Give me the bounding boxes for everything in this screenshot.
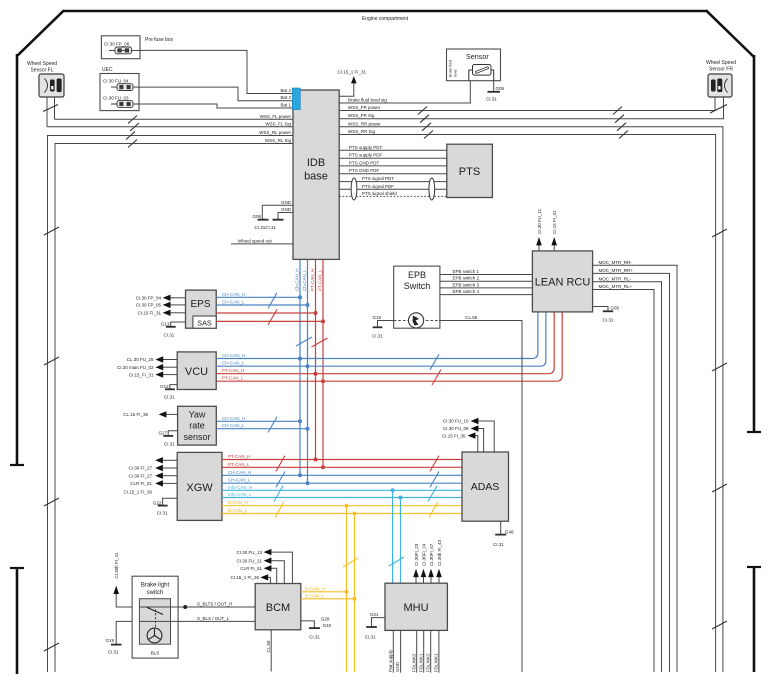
BCM box bbox=[255, 584, 301, 630]
node CI.30b FI_41 bbox=[113, 552, 132, 607]
svg-text:CI.30 FU_04: CI.30 FU_04 bbox=[103, 79, 129, 84]
svg-text:CI.31: CI.31 bbox=[603, 318, 614, 323]
svg-text:CH-CAN_L: CH-CAN_L bbox=[228, 478, 251, 483]
svg-text:CI.30 main FU_02: CI.30 main FU_02 bbox=[117, 365, 154, 370]
ground G05 (sensor) bbox=[486, 81, 505, 102]
svg-text:CI.31: CI.31 bbox=[108, 650, 119, 655]
svg-text:CI.30FI_57: CI.30FI_57 bbox=[429, 543, 434, 566]
svg-text:level: level bbox=[454, 69, 458, 77]
EPB actuator circle bbox=[409, 313, 424, 328]
pin CI.30 FU_11 (top arrow) bbox=[536, 208, 542, 251]
svg-text:Bat 2: Bat 2 bbox=[280, 95, 291, 100]
pin CI.30FI_57 (top arrow) bbox=[428, 543, 434, 583]
frame: left border upper segment bbox=[16, 54, 19, 465]
splice marks on FR/RR horizontals set 2 bbox=[613, 107, 628, 139]
svg-text:CI.15_1 FI_31: CI.15_1 FI_31 bbox=[338, 70, 367, 75]
junction dots on bus: PT ends bbox=[314, 458, 318, 462]
VCU box bbox=[177, 352, 216, 390]
svg-text:CI.30 FI_27: CI.30 FI_27 bbox=[128, 473, 152, 478]
svg-text:G05: G05 bbox=[496, 86, 505, 91]
junction dots EPS bbox=[298, 295, 302, 299]
svg-text:EPB: EPB bbox=[408, 270, 426, 280]
ground G22 bbox=[153, 498, 177, 515]
splice marks on left RL verticals bbox=[44, 227, 59, 651]
wire EPS CH-CAN_L bbox=[216, 300, 307, 306]
svg-text:CI.30b FI_43: CI.30b FI_43 bbox=[437, 539, 442, 566]
svg-text:PTS: PTS bbox=[459, 166, 480, 178]
svg-text:Sensor FL: Sensor FL bbox=[30, 68, 53, 74]
wire WSS_FR Sig bbox=[339, 97, 723, 119]
svg-text:CI.30 FP_04: CI.30 FP_04 bbox=[136, 296, 162, 301]
splice marks on right RR verticals bbox=[712, 229, 727, 629]
svg-text:G48: G48 bbox=[505, 529, 514, 534]
ground G19 (BLS) bbox=[105, 621, 132, 654]
svg-text:UEC: UEC bbox=[102, 67, 113, 73]
svg-text:S_BLS / OUT_L: S_BLS / OUT_L bbox=[197, 616, 230, 621]
EPS box bbox=[186, 290, 217, 328]
PTS signal wires rows 5-7 bbox=[339, 176, 447, 182]
svg-text:Brake fluid level sig: Brake fluid level sig bbox=[348, 98, 387, 103]
frame: right chamfer bbox=[706, 10, 754, 57]
svg-text:MOC_MTR_RR+: MOC_MTR_RR+ bbox=[599, 268, 634, 273]
svg-text:CL.56: CL.56 bbox=[465, 315, 478, 320]
wire EPS CH-CAN_H bbox=[216, 292, 300, 298]
wire Info-CAN verticals to MHU bbox=[393, 490, 401, 583]
svg-text:Pre fuse box: Pre fuse box bbox=[145, 37, 174, 43]
wire MHU GND bbox=[395, 630, 400, 672]
wire bus B-CAN_H bbox=[222, 500, 462, 506]
wire BCM B-CAN_H bbox=[301, 586, 347, 592]
svg-text:FDLINK1: FDLINK1 bbox=[434, 653, 439, 672]
pin CI.30 FU_09 bbox=[443, 425, 484, 452]
wire EPB switch 3 bbox=[440, 282, 533, 288]
wire EPB switch 1 bbox=[440, 269, 533, 275]
pin CI.30 FU_10 bbox=[443, 418, 494, 452]
splice marks bus set2 bbox=[430, 456, 439, 472]
svg-text:BCM: BCM bbox=[266, 602, 290, 614]
svg-text:Bat 2: Bat 2 bbox=[280, 88, 291, 93]
splice marks on FR/RR horizontals set 1 bbox=[418, 107, 433, 139]
svg-text:CI.15_1 FI_36: CI.15_1 FI_36 bbox=[230, 575, 259, 580]
wire yaw CH-CAN_L bbox=[216, 423, 307, 429]
junction dots B-CAN at BCM bbox=[345, 590, 349, 594]
wire bus Info-CAN_L bbox=[222, 492, 462, 498]
svg-text:Wheel Speed: Wheel Speed bbox=[706, 60, 736, 66]
splice marks bus set1 bbox=[276, 456, 285, 472]
wire bus PT-CAN_H XGW to ADAS bbox=[222, 454, 462, 460]
wire VCU PT-CAN_L to LEAN RCU bbox=[216, 312, 562, 381]
ground G12 bbox=[160, 384, 177, 400]
wire CL.56 bbox=[439, 315, 522, 672]
splice mark on FL drops bbox=[43, 105, 58, 112]
pin XGW row1 bbox=[155, 457, 177, 463]
pin CI.15 FI_31 (top arrow) bbox=[551, 210, 557, 251]
wire MOC_MTR_RL- bbox=[593, 276, 662, 672]
svg-text:CI.15 FI_31: CI.15 FI_31 bbox=[552, 210, 557, 234]
ground G27 bbox=[158, 430, 177, 446]
svg-text:CI.30 FP_05: CI.30 FP_05 bbox=[136, 303, 162, 308]
PTS wires rows 1-4 bbox=[339, 145, 447, 151]
svg-text:Ch-CAN_H: Ch-CAN_H bbox=[294, 268, 299, 291]
wire WSS_RR Sig bbox=[339, 129, 715, 672]
svg-text:CH-CAN_H: CH-CAN_H bbox=[222, 292, 245, 297]
svg-text:EPB switch 1: EPB switch 1 bbox=[453, 269, 480, 274]
svg-text:EPS: EPS bbox=[190, 299, 210, 310]
splice marks on VCU pairs near LEAN RCU bbox=[430, 354, 439, 370]
IDB base box bbox=[293, 90, 339, 259]
wire EPS PT-CAN_L bbox=[216, 320, 323, 322]
svg-text:G13: G13 bbox=[161, 322, 170, 327]
svg-text:WSS_RR Sig: WSS_RR Sig bbox=[348, 129, 376, 134]
svg-text:WSS_RL power: WSS_RL power bbox=[259, 130, 291, 135]
junction dots on bus: CH ends bbox=[298, 473, 302, 477]
svg-text:Ch-CAN_L: Ch-CAN_L bbox=[302, 269, 307, 291]
wire MOC_MTR_RR+ bbox=[593, 268, 670, 672]
svg-text:CH-CAN_L: CH-CAN_L bbox=[222, 423, 245, 428]
svg-text:Wheel Speed: Wheel Speed bbox=[27, 61, 57, 67]
ground G05 (LEAN RCU) bbox=[593, 306, 620, 323]
svg-text:PT-CAN_H: PT-CAN_H bbox=[228, 454, 250, 459]
svg-text:FDLINK2: FDLINK2 bbox=[411, 653, 416, 672]
bus PT-CAN_L vertical bbox=[322, 260, 324, 468]
svg-text:FDLINK2: FDLINK2 bbox=[425, 653, 430, 672]
wire bus B-CAN_L bbox=[222, 508, 462, 514]
pin CL.15 FI_35 bbox=[123, 411, 177, 417]
svg-text:G29: G29 bbox=[321, 617, 330, 622]
junction dots yaw bbox=[298, 419, 302, 423]
splice mark on yaw pair bbox=[268, 417, 277, 433]
svg-text:CI.30FI_24: CI.30FI_24 bbox=[422, 543, 427, 566]
EPB switch box bbox=[394, 266, 440, 328]
ground G13 bbox=[161, 322, 186, 338]
svg-text:CI.30 FI_27: CI.30 FI_27 bbox=[128, 466, 152, 471]
svg-text:CI.15 FI_35: CI.15 FI_35 bbox=[442, 433, 466, 438]
pin CI.30 FP_04 bbox=[136, 295, 186, 301]
svg-text:G21: G21 bbox=[370, 612, 379, 617]
svg-text:CI.31: CI.31 bbox=[309, 635, 320, 640]
wire MHU FDLINK1 a bbox=[418, 630, 423, 672]
bus Ch-CAN_L vertical bbox=[307, 260, 309, 484]
pin CI.15 FI_35 bbox=[442, 432, 478, 452]
svg-text:MOC_MTR_RL+: MOC_MTR_RL+ bbox=[599, 284, 633, 289]
svg-text:PTS signal PDF: PTS signal PDF bbox=[362, 184, 394, 189]
svg-text:Wheel speed out: Wheel speed out bbox=[238, 238, 273, 243]
frame: left border lower segment cap bbox=[10, 567, 24, 569]
svg-text:Brake light: Brake light bbox=[141, 583, 170, 589]
wire: UEC FU_03 Bat 1 to IDB bbox=[139, 104, 293, 108]
brake light switch assembly bbox=[132, 576, 178, 658]
svg-text:Switch: Switch bbox=[404, 281, 431, 291]
svg-text:B-CAN_H: B-CAN_H bbox=[305, 586, 325, 591]
ground G29 G40 bbox=[301, 617, 332, 640]
svg-text:CI.31: CI.31 bbox=[164, 333, 175, 338]
svg-text:GND: GND bbox=[395, 661, 400, 672]
pin CLR FI_51 bbox=[130, 480, 177, 486]
wire WSS_FL Sig bbox=[47, 126, 293, 128]
svg-text:G12: G12 bbox=[160, 384, 169, 389]
pin CI.15_1 FI_36 bbox=[230, 574, 270, 583]
pin CI.30FI_23 (top arrow) bbox=[413, 543, 419, 583]
svg-text:WSS_RR power: WSS_RR power bbox=[348, 121, 381, 126]
pin CI.30 FU_13 bbox=[236, 549, 292, 584]
svg-text:WSS_FR Sig: WSS_FR Sig bbox=[348, 113, 375, 118]
splice marks on EPS CAN pairs bbox=[268, 293, 277, 309]
frame: right border lower segment bbox=[753, 567, 756, 672]
splice marks on left WSS horizontals bbox=[126, 116, 139, 148]
svg-text:MHU: MHU bbox=[403, 602, 428, 614]
svg-text:sensor: sensor bbox=[183, 432, 210, 442]
wire MHU FDLINK1 b bbox=[434, 630, 439, 672]
svg-text:Pwr supply: Pwr supply bbox=[388, 649, 393, 672]
svg-text:PT-CAN_H: PT-CAN_H bbox=[310, 269, 315, 291]
svg-text:CI.31CI.31: CI.31CI.31 bbox=[255, 225, 277, 230]
wire EPS PT-CAN_H bbox=[216, 312, 315, 314]
svg-text:WSS_RL Sig: WSS_RL Sig bbox=[265, 138, 292, 143]
wheel speed sensor FL bbox=[27, 61, 64, 97]
pin CI.30 FI_27 bbox=[128, 465, 177, 471]
svg-text:CI.15_FI_31: CI.15_FI_31 bbox=[129, 372, 154, 377]
svg-text:CI.30 FU_11: CI.30 FU_11 bbox=[537, 208, 542, 234]
svg-text:S_BLTS / OUT_H: S_BLTS / OUT_H bbox=[197, 602, 232, 607]
svg-text:B-CAN_L: B-CAN_L bbox=[228, 508, 248, 513]
svg-text:ADAS: ADAS bbox=[471, 481, 500, 493]
wire bus CH-CAN_L bbox=[222, 478, 462, 484]
bus Ch-CAN_H vertical bbox=[299, 260, 301, 476]
connector (blue) on IDB bbox=[292, 88, 300, 110]
pin CL.30 FU_25 bbox=[127, 356, 177, 362]
svg-text:PTS supply PDF: PTS supply PDF bbox=[349, 153, 383, 158]
wire BCM B-CAN_L bbox=[301, 593, 355, 599]
svg-text:CI.30 FU_03: CI.30 FU_03 bbox=[103, 96, 129, 101]
svg-text:CI.31: CI.31 bbox=[486, 97, 497, 102]
ground G06 bbox=[252, 214, 283, 230]
wire brake fluid level sig bbox=[339, 81, 470, 103]
pin CI.30 FI_27 b bbox=[128, 473, 177, 479]
svg-text:CH-CAN_H: CH-CAN_H bbox=[222, 416, 245, 421]
svg-text:CI.31: CI.31 bbox=[164, 395, 175, 400]
wire MHU FDLINK2 b bbox=[425, 630, 430, 672]
svg-text:CI.30 FU_13: CI.30 FU_13 bbox=[236, 550, 262, 555]
svg-text:FDLINK1: FDLINK1 bbox=[418, 653, 423, 672]
svg-text:G40: G40 bbox=[323, 623, 332, 628]
wire wheel speed out (stub) bbox=[231, 238, 293, 244]
svg-text:CI.30 FU_21: CI.30 FU_21 bbox=[236, 558, 262, 563]
pin CI.30b FI_43 (top arrow) bbox=[436, 539, 442, 583]
wire EPB switch 4 bbox=[440, 289, 533, 295]
svg-text:CH-CAN_L: CH-CAN_L bbox=[222, 300, 245, 305]
svg-text:B-CAN_H: B-CAN_H bbox=[228, 500, 248, 505]
junction dots VCU bbox=[298, 357, 302, 361]
wire VCU CH-CAN_L to LEAN RCU bbox=[216, 312, 546, 366]
pin CI.15_FI_31 bbox=[129, 371, 177, 377]
frame: left chamfer bbox=[17, 10, 64, 56]
svg-text:SAS: SAS bbox=[197, 319, 212, 328]
svg-text:G22: G22 bbox=[153, 500, 162, 505]
svg-text:CLR FI_51: CLR FI_51 bbox=[240, 566, 262, 571]
pin CI.30FI_24 (top arrow) bbox=[421, 543, 427, 583]
junction dots on bus: B taps bbox=[345, 504, 349, 508]
svg-text:CLR FI_51: CLR FI_51 bbox=[130, 481, 152, 486]
svg-text:CI.31: CI.31 bbox=[365, 635, 376, 640]
svg-text:G19: G19 bbox=[105, 638, 114, 643]
svg-text:WSS_FR power: WSS_FR power bbox=[348, 105, 381, 110]
splice mark on B verticals bbox=[343, 558, 358, 567]
pin CI.30 main FU_02 bbox=[117, 364, 177, 370]
wire WSS_RR power bbox=[339, 121, 723, 672]
svg-text:base: base bbox=[304, 171, 328, 183]
svg-text:XGW: XGW bbox=[186, 482, 213, 494]
svg-text:Sensor: Sensor bbox=[466, 52, 489, 61]
svg-text:PTS signal PDT: PTS signal PDT bbox=[362, 176, 394, 181]
svg-text:Brake fluid: Brake fluid bbox=[449, 60, 453, 77]
wire yaw CH-CAN_H bbox=[216, 416, 300, 422]
svg-text:CL.58: CL.58 bbox=[266, 640, 271, 653]
wire: UEC FU_04 Bat 2 to IDB bbox=[139, 87, 293, 101]
node CI.15_1 FI_31 (IDB supply out) bbox=[338, 70, 367, 97]
wire WSS_FL power bbox=[55, 118, 293, 120]
frame: right border upper segment bbox=[753, 55, 756, 432]
svg-text:switch: switch bbox=[147, 590, 164, 596]
svg-text:CI.31: CI.31 bbox=[164, 441, 175, 446]
svg-text:IDB: IDB bbox=[307, 157, 325, 169]
svg-text:PTS signal shield: PTS signal shield bbox=[362, 191, 397, 196]
svg-text:PTS GND PDF: PTS GND PDF bbox=[349, 168, 380, 173]
wire MHU pwr supply bbox=[388, 630, 393, 672]
wire MOC_MTR_RR- bbox=[593, 260, 677, 672]
wire B-CAN verticals down bbox=[347, 506, 355, 672]
svg-text:Info-CAN_L: Info-CAN_L bbox=[228, 492, 252, 497]
wire VCU PT-CAN_H to LEAN RCU bbox=[216, 312, 554, 374]
svg-text:CI.31: CI.31 bbox=[157, 511, 168, 516]
wheel speed sensor FR bbox=[706, 60, 736, 97]
svg-text:WSS_FL Sig: WSS_FL Sig bbox=[265, 121, 291, 126]
MHU box bbox=[385, 583, 447, 630]
wire: pre fuse box Bat 2 to IDB bbox=[140, 50, 293, 93]
frame: right border lower segment cap bbox=[747, 566, 761, 568]
svg-text:CI.15 FI_31: CI.15 FI_31 bbox=[137, 311, 161, 316]
wire WSS_RL power bbox=[48, 136, 293, 673]
svg-text:Info-CAN_H: Info-CAN_H bbox=[228, 485, 252, 490]
svg-text:CH-CAN_L: CH-CAN_L bbox=[222, 361, 245, 366]
svg-text:rate: rate bbox=[189, 421, 205, 431]
splice mark on Ch-CAN verticals bbox=[296, 337, 312, 346]
wire: sensor FL drops bbox=[47, 97, 55, 127]
ground G21 bbox=[365, 612, 385, 639]
svg-text:CI.15_1 FI_36: CI.15_1 FI_36 bbox=[123, 489, 152, 494]
junction dots on bus: Info taps bbox=[391, 488, 395, 492]
shield ellipse 2 bbox=[429, 178, 435, 200]
pin CI.15 FI_31 bbox=[137, 310, 185, 316]
svg-text:Yaw: Yaw bbox=[189, 410, 206, 420]
wire MHU FDLINK2 a bbox=[411, 630, 416, 672]
wire VCU CH-CAN_H to LEAN RCU bbox=[216, 312, 538, 359]
svg-text:PT-CAN_H: PT-CAN_H bbox=[222, 368, 244, 373]
svg-text:CL.30 FU_25: CL.30 FU_25 bbox=[127, 357, 154, 362]
bus PT-CAN_H vertical bbox=[315, 260, 317, 460]
pre fuse box bbox=[101, 36, 173, 59]
svg-text:G27: G27 bbox=[158, 430, 167, 435]
pin CLR FI_51 bbox=[240, 565, 276, 583]
splice mark on PT-CAN verticals bbox=[312, 338, 328, 347]
svg-text:CI.30 FU_10: CI.30 FU_10 bbox=[443, 419, 469, 424]
wire WSS_RL Sig bbox=[55, 144, 293, 673]
svg-text:CI.30b FI_41: CI.30b FI_41 bbox=[114, 552, 119, 579]
wire EPB switch 2 bbox=[440, 276, 533, 282]
svg-text:VCU: VCU bbox=[185, 366, 208, 378]
svg-text:MOC_MTR_RL-: MOC_MTR_RL- bbox=[599, 276, 632, 281]
svg-text:B-CAN_L: B-CAN_L bbox=[305, 593, 325, 598]
splice mark on FR sensor drops bbox=[710, 105, 727, 114]
svg-text:CL.15 FI_35: CL.15 FI_35 bbox=[123, 412, 148, 417]
wire CL.58 bbox=[266, 630, 271, 672]
svg-text:G05: G05 bbox=[611, 306, 620, 311]
wire GND 1 bbox=[262, 200, 293, 219]
svg-text:WSS_FL power: WSS_FL power bbox=[260, 114, 292, 119]
LEAN RCU box bbox=[532, 251, 592, 312]
svg-text:LEAN RCU: LEAN RCU bbox=[535, 277, 591, 289]
yaw rate sensor box bbox=[178, 406, 217, 445]
svg-text:PT-CAN_L: PT-CAN_L bbox=[222, 376, 244, 381]
svg-text:PTS GND PDT: PTS GND PDT bbox=[349, 160, 380, 165]
wire MOC_MTR_RL+ bbox=[593, 284, 654, 672]
ground G48 bbox=[493, 521, 514, 547]
wire bus CH-CAN_H bbox=[222, 470, 462, 476]
svg-text:EPB switch 2: EPB switch 2 bbox=[453, 276, 480, 281]
wire WSS_FR power bbox=[339, 97, 715, 111]
frame: left border lower segment bbox=[16, 568, 19, 674]
svg-text:Engine compartment: Engine compartment bbox=[362, 16, 409, 22]
EPB internal dashed line bbox=[394, 320, 439, 322]
svg-text:CH-CAN_H: CH-CAN_H bbox=[228, 470, 251, 475]
frame: page border top with chamfered corners bbox=[63, 10, 707, 13]
svg-text:PTS supply PDT: PTS supply PDT bbox=[349, 145, 383, 150]
svg-text:EPB switch 4: EPB switch 4 bbox=[453, 289, 480, 294]
svg-text:CH-CAN_H: CH-CAN_H bbox=[222, 353, 245, 358]
XGW box bbox=[177, 452, 222, 520]
frame: left border upper end cap bbox=[10, 464, 24, 466]
wire GND 2 bbox=[278, 207, 293, 219]
wire S_BLTS / OUT_H bbox=[139, 602, 255, 610]
svg-text:GND: GND bbox=[281, 200, 292, 205]
svg-text:Bat 1: Bat 1 bbox=[280, 103, 291, 108]
svg-text:CI.30 FP_06: CI.30 FP_06 bbox=[104, 42, 130, 47]
PTS box bbox=[447, 144, 493, 197]
svg-text:BLS: BLS bbox=[151, 651, 160, 656]
sensor (brake fluid level) box bbox=[447, 49, 501, 81]
svg-text:G06: G06 bbox=[252, 214, 261, 219]
svg-text:MOC_MTR_RR-: MOC_MTR_RR- bbox=[599, 260, 633, 265]
svg-text:GND: GND bbox=[281, 207, 292, 212]
svg-text:CI.30 FU_09: CI.30 FU_09 bbox=[443, 426, 469, 431]
svg-text:EPB switch 3: EPB switch 3 bbox=[453, 282, 480, 287]
svg-text:PT-CAN_L: PT-CAN_L bbox=[228, 462, 250, 467]
ADAS box bbox=[462, 452, 509, 521]
UEC box bbox=[100, 67, 139, 111]
svg-text:Sensor FR: Sensor FR bbox=[709, 67, 733, 73]
svg-text:CI.30FI_23: CI.30FI_23 bbox=[414, 543, 419, 566]
pin CI.30 FP_05 bbox=[136, 302, 186, 308]
pin CI.30 FU_21 bbox=[236, 558, 284, 584]
shield ellipse 1 bbox=[351, 178, 357, 200]
wire bus Info-CAN_H bbox=[222, 485, 462, 491]
svg-text:G19: G19 bbox=[372, 315, 381, 320]
svg-text:CI.31: CI.31 bbox=[493, 542, 504, 547]
wire S_BLS / OUT_L bbox=[139, 616, 255, 622]
ground G19 (EPB) bbox=[372, 315, 394, 339]
splice mark on Info verticals bbox=[389, 557, 404, 566]
wire bus PT-CAN_L bbox=[222, 462, 462, 468]
svg-text:CI.31: CI.31 bbox=[372, 334, 383, 339]
